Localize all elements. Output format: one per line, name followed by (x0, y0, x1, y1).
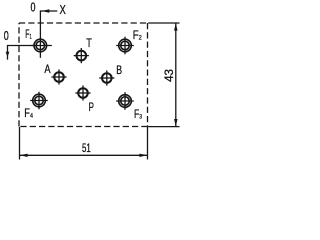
svg-text:X: X (60, 3, 67, 17)
svg-text:0: 0 (4, 29, 9, 43)
port P circle (78, 88, 88, 98)
plate outline dashed rectangle (19, 23, 148, 127)
dimension 51 line (20, 154, 148, 156)
dimension 43 line (175, 23, 177, 127)
port A circle (54, 72, 64, 82)
port P crosshair (75, 92, 90, 94)
arrowhead dim43 bottom (174, 119, 178, 127)
port F4 circles (33, 94, 46, 107)
port F3 circles (119, 95, 132, 108)
arrowhead X axis (points left, tip at origin corner) (42, 9, 50, 13)
port F1 circles (34, 39, 47, 52)
dimension 43 witness line top (148, 22, 179, 24)
arrowhead dim51 right (139, 154, 147, 157)
svg-text:F4: F4 (24, 108, 33, 120)
arrowhead dim43 top (174, 23, 178, 31)
svg-text:B: B (116, 63, 122, 77)
svg-text:0: 0 (31, 1, 36, 15)
arrowhead dim51 left (20, 154, 28, 157)
port B crosshair (99, 77, 114, 79)
wire Y axis lead: from F1 left, corner down (8, 46, 34, 60)
svg-text:51: 51 (82, 143, 91, 155)
svg-text:T: T (86, 36, 92, 50)
svg-text:A: A (44, 62, 50, 76)
wire X axis lead: corner above F1 going right (40, 11, 57, 36)
svg-text:P: P (89, 100, 94, 114)
svg-text:F2: F2 (133, 30, 142, 42)
port T crosshair (74, 55, 89, 57)
svg-text:F1: F1 (25, 29, 32, 41)
port F4 crosshair (30, 100, 48, 102)
port F2 crosshair (116, 45, 134, 47)
port A crosshair (51, 76, 66, 78)
svg-text:43: 43 (164, 69, 176, 82)
port B circle (102, 73, 112, 83)
arrowhead Y axis (points down) (6, 52, 10, 57)
dimension 51 witness line left (19, 127, 21, 160)
dimension 51 witness line right (147, 127, 149, 160)
port F2 circles (119, 39, 132, 52)
port T circle (77, 51, 87, 61)
dimension 43 witness line bottom (148, 126, 179, 128)
svg-text:F3: F3 (134, 109, 142, 121)
port F3 crosshair (116, 100, 134, 102)
port F1 crosshair (32, 45, 52, 47)
